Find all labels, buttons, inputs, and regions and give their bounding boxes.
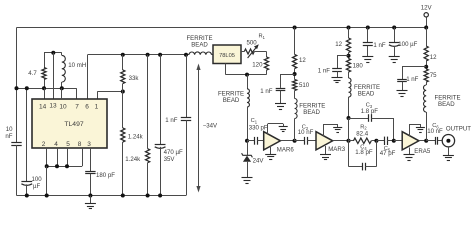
op-amp U4 MAR3 body <box>316 132 333 150</box>
svg-text:14: 14 <box>39 103 47 110</box>
svg-text:1 nF: 1 nF <box>165 117 177 124</box>
wire 1.24k to ground rail <box>122 142 124 196</box>
node rail tap 1nF <box>366 26 370 30</box>
svg-text:2: 2 <box>42 141 46 148</box>
capacitor 1 nF (MAR3 bias) <box>332 68 342 70</box>
node feedback bottom <box>121 194 125 198</box>
svg-text:35V: 35V <box>164 156 176 163</box>
ferrite bead L5 (ERA5) <box>426 82 428 85</box>
svg-text:BEAD: BEAD <box>438 101 455 108</box>
ground below 1nF MAR3 <box>337 72 339 78</box>
node MAR3 output junction <box>347 139 351 143</box>
node second divider bottom <box>146 194 150 198</box>
node bus pin5 <box>65 164 69 168</box>
svg-text:82.4: 82.4 <box>356 131 368 138</box>
case ground staple MAR3 <box>323 124 325 136</box>
terminal 12V <box>424 13 428 17</box>
svg-text:OUTPUT: OUTPUT <box>446 126 471 133</box>
wire 12V top rail <box>17 27 427 29</box>
resistor 75 <box>424 69 428 82</box>
op-amp U5 ERA5 body <box>402 132 419 150</box>
svg-text:47 pF: 47 pF <box>380 150 396 157</box>
wire pin 6 riser <box>87 55 89 99</box>
svg-text:10 nF: 10 nF <box>427 128 443 135</box>
case ground staple ERA5 <box>409 124 411 136</box>
node MAR6 bias mid <box>293 72 297 76</box>
svg-text:8: 8 <box>78 141 82 148</box>
node 100uF top junction <box>25 86 29 90</box>
wire 1nF MAR3 branch <box>337 55 349 57</box>
node C3 tap <box>347 116 351 120</box>
svg-text:nF: nF <box>5 133 12 140</box>
ground below MAR3 <box>325 146 327 155</box>
wire MAR3 bias upper <box>348 28 350 39</box>
capacitor C3 1.8 pF <box>349 118 369 120</box>
resistor 4.7 <box>42 68 46 80</box>
svg-text:330 pF: 330 pF <box>249 124 268 131</box>
svg-text:100 µF: 100 µF <box>398 41 417 48</box>
node MAR6 output junction <box>293 139 297 143</box>
wire 4.7 bottom to y88 <box>44 80 46 89</box>
wire 4.7 top segment <box>44 53 46 68</box>
svg-text:12: 12 <box>335 41 342 48</box>
node second divider top <box>146 53 150 57</box>
node 470uF bottom <box>158 194 162 198</box>
wire MAR6 out <box>280 140 294 142</box>
node 470uF top <box>158 53 162 57</box>
svg-text:−34V: −34V <box>203 123 218 130</box>
node rail tap 100uF <box>392 26 396 30</box>
capacitor C4 1.8 pF <box>348 141 350 167</box>
svg-text:1.24k: 1.24k <box>125 156 141 163</box>
wire bus drop to ground rail <box>46 166 48 195</box>
wire 100uF branch upper <box>26 88 28 181</box>
capacitor 1 nF (ERA5 bias) <box>397 79 407 81</box>
node pin1/feedback junction <box>121 90 125 94</box>
ground main rail symbol <box>90 196 92 204</box>
resistor 1.24k lower <box>146 149 150 163</box>
node 1nF -34V top <box>184 53 188 57</box>
ground below 1nF MAR6 <box>280 91 282 104</box>
wire pin 3 stub <box>90 148 92 171</box>
wire 180pF to ground rail <box>90 174 92 196</box>
wire C2 left <box>295 140 305 142</box>
ferrite bead L4 (MAR3) <box>348 72 350 78</box>
node 180pF/ground-rail junction <box>88 194 92 198</box>
svg-text:3: 3 <box>87 141 91 148</box>
svg-text:10: 10 <box>6 126 13 133</box>
capacitor C1 330 pF <box>254 137 256 145</box>
svg-text:24V: 24V <box>253 157 265 164</box>
node 10mH bottom junction <box>60 86 64 90</box>
wire 33k top segment <box>122 55 124 70</box>
svg-text:1 nF: 1 nF <box>406 76 418 83</box>
svg-text:4.7: 4.7 <box>28 70 37 77</box>
node pin13 tap <box>51 51 55 55</box>
svg-text:5: 5 <box>66 141 70 148</box>
regulator U2 78L05 body <box>213 45 241 64</box>
wire ERA5 bias upper <box>426 28 428 47</box>
wire 120 bottom loop <box>266 70 268 75</box>
svg-text:BEAD: BEAD <box>191 42 208 49</box>
capacitor 180 pF <box>85 171 95 173</box>
ground below MAR6 <box>270 146 272 154</box>
wire pin 13 stub <box>53 53 55 99</box>
node C1 input junction <box>245 139 249 143</box>
svg-text:6: 6 <box>85 103 89 110</box>
svg-text:MAR3: MAR3 <box>328 146 346 153</box>
resistor 120 <box>264 57 268 70</box>
resistor 1.24k upper <box>121 128 125 142</box>
node R2/C4 right junction <box>374 139 378 143</box>
svg-text:4: 4 <box>54 141 58 148</box>
node rail tap MAR6 bias <box>293 26 297 30</box>
ground below output connector <box>448 147 450 155</box>
op-amp U1 TL497 body <box>32 99 107 148</box>
wire 1nF -34V upper <box>186 55 188 117</box>
wire pin 14 stub <box>44 88 46 99</box>
wire 1nF ERA5 branch <box>402 66 426 68</box>
wire left drop (lower) to ground rail <box>16 145 18 196</box>
svg-text:13: 13 <box>49 102 57 109</box>
ferrite bead L2 (reg out) <box>247 75 249 89</box>
svg-text:12: 12 <box>430 54 437 61</box>
node -34V annotation arrow <box>198 67 200 190</box>
wire MAR6 bias upper <box>294 28 296 55</box>
svg-text:µF: µF <box>33 183 41 190</box>
ground below ERA5 <box>409 148 411 155</box>
wire 1nF MAR6 branch <box>281 74 295 76</box>
wire C1 to MAR6 <box>257 140 263 142</box>
capacitor 1 nF (rail) <box>367 28 369 43</box>
node bus/ground-rail junction <box>45 194 49 198</box>
wire pin 2 stub <box>46 148 48 166</box>
svg-text:BEAD: BEAD <box>358 91 375 98</box>
svg-text:1.8 pF: 1.8 pF <box>361 108 379 115</box>
wire ground rail <box>17 195 187 197</box>
wire pin 5 stub <box>67 148 69 166</box>
ferrite bead L1 (input) <box>189 52 211 55</box>
capacitor 100 uF <box>21 181 32 183</box>
svg-text:10: 10 <box>59 103 67 110</box>
svg-text:1.8 pF: 1.8 pF <box>355 149 373 156</box>
svg-text:12: 12 <box>299 57 306 64</box>
resistor 12 (MAR6 bias) <box>293 55 297 69</box>
wire main 5V/bias line y55 <box>88 54 190 56</box>
ferrite bead L3 (MAR6) <box>294 91 296 99</box>
capacitor C6 10 nF <box>435 137 437 145</box>
wire regulator common drop <box>225 64 227 75</box>
wire pin 8 stub <box>82 148 84 166</box>
svg-text:78L05: 78L05 <box>219 53 235 59</box>
node MAR3 bias mid <box>347 54 351 58</box>
connector OUTPUT <box>442 135 454 147</box>
wire pin 10 stub <box>61 88 63 99</box>
capacitor 1 nF (MAR6 bias) <box>276 88 286 90</box>
svg-text:1 nF: 1 nF <box>373 42 385 49</box>
svg-text:120: 120 <box>252 61 263 68</box>
wire C6 to output <box>438 140 442 142</box>
svg-text:BEAD: BEAD <box>223 97 240 104</box>
ground below rail 1nF <box>367 46 369 57</box>
svg-text:180 pF: 180 pF <box>96 172 115 179</box>
resistor 510 <box>293 80 297 91</box>
node bus pin4 <box>55 164 59 168</box>
svg-text:10 mH: 10 mH <box>68 62 86 69</box>
node pin14/4.7 junction <box>42 86 46 90</box>
capacitor C2 10 nF <box>304 137 306 145</box>
svg-text:1: 1 <box>95 103 99 110</box>
inductor 10 mH <box>62 55 66 82</box>
wire 100uF branch lower <box>26 184 28 195</box>
svg-text:33k: 33k <box>129 75 140 82</box>
svg-text:75: 75 <box>430 72 437 79</box>
svg-text:1 nF: 1 nF <box>260 88 272 95</box>
node rail tap MAR3 bias <box>347 26 351 30</box>
capacitor 1 nF (-34V) <box>181 117 191 119</box>
svg-text:TL497: TL497 <box>64 121 83 128</box>
wire supply feed node line y88 <box>17 88 77 90</box>
wire pin 7 riser <box>76 88 78 99</box>
wire C1 left <box>247 140 254 142</box>
potentiometer R1 500 <box>244 49 254 54</box>
wire bottom pin bus <box>47 166 82 168</box>
node rail/12V junction <box>424 26 428 30</box>
wire bead to regulator <box>212 54 214 56</box>
wire second divider upper <box>147 55 149 149</box>
node ERA5 bias mid <box>424 65 428 69</box>
diode D1 zener 24V <box>247 141 249 156</box>
capacitor 100 uF (rail) <box>394 28 396 43</box>
svg-text:10 nF: 10 nF <box>298 129 314 136</box>
wire 1nF -34V lower to rail corner <box>186 120 188 195</box>
wire line53 (pin13 net) <box>44 52 62 54</box>
node left-border/y88 junction <box>15 86 19 90</box>
wire ERA5 out <box>419 140 426 142</box>
wire 470uF lower <box>160 147 162 196</box>
svg-text:500: 500 <box>247 39 258 46</box>
node regulator/bead junction <box>245 73 249 77</box>
ground below 1nF ERA5 <box>402 82 404 91</box>
wire pot to 120 top <box>254 51 266 53</box>
resistor 12 (ERA5 bias) <box>424 46 428 61</box>
ground below zener <box>242 177 253 179</box>
wire C2 to MAR3 <box>307 140 316 142</box>
resistor 12 (MAR3 bias) <box>346 38 350 53</box>
svg-text:MAR6: MAR6 <box>277 147 295 154</box>
wire C6 left <box>426 140 435 142</box>
wire 33k bottom to 1.24k <box>122 84 124 129</box>
wire pin 1 stub <box>97 92 99 100</box>
node C3/C5 right junction <box>392 139 396 143</box>
svg-text:1.24k: 1.24k <box>128 134 144 141</box>
svg-text:7: 7 <box>75 103 79 110</box>
wire 470uF upper <box>160 55 162 145</box>
svg-text:BEAD: BEAD <box>303 109 320 116</box>
resistor 180 <box>346 59 350 73</box>
capacitor C5 47 pF <box>376 140 384 142</box>
wire MAR3 bias lower <box>348 118 350 141</box>
wire pin 4 stub <box>57 148 59 166</box>
node bus pin2 <box>45 164 49 168</box>
op-amp U3 MAR6 body <box>264 132 281 150</box>
resistor R2 82.4 <box>349 140 354 142</box>
node ERA5 output junction <box>424 139 428 143</box>
wire regulator output <box>241 51 244 53</box>
node 33k top <box>121 53 125 57</box>
svg-text:ERA5: ERA5 <box>414 148 431 155</box>
capacitor 470 uF 35V <box>155 144 166 146</box>
svg-text:510: 510 <box>299 82 310 89</box>
wire second divider lower <box>147 163 149 196</box>
svg-text:12V: 12V <box>421 5 433 12</box>
wire left 12V drop (upper) <box>16 28 18 143</box>
case ground staple MAR6 <box>267 124 269 134</box>
svg-text:R1: R1 <box>259 34 266 40</box>
resistor 33k <box>121 70 125 84</box>
wire to ERA5 <box>394 140 402 142</box>
ground below rail 100uF <box>394 46 396 57</box>
node 100uF ground junction <box>25 194 29 198</box>
wire MAR3 out <box>333 140 349 142</box>
capacitor 10 nF (input bypass) <box>11 142 21 144</box>
svg-text:1 nF: 1 nF <box>318 67 330 74</box>
svg-text:180: 180 <box>353 63 364 70</box>
